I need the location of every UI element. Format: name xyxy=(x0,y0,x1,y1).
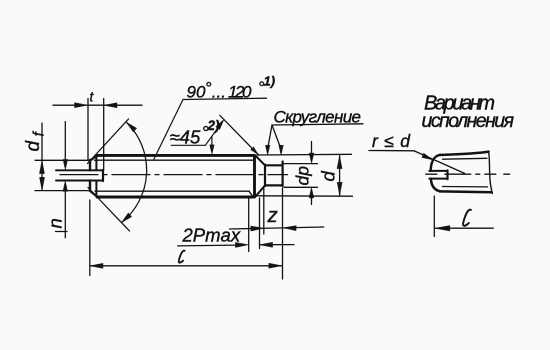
svg-text:t: t xyxy=(90,90,95,105)
construction line bottom (chamfer extended) xyxy=(88,188,130,232)
variant: crest top line xyxy=(440,152,489,155)
dp arrow down xyxy=(309,153,314,164)
n dimension line lower part xyxy=(64,191,66,238)
variant l dimension line with arrow xyxy=(435,227,493,229)
approx45 branch arrow down to thread xyxy=(211,137,213,147)
screw body crest bottom line xyxy=(97,196,254,199)
variant: slot lines xyxy=(429,171,447,179)
construction line top (chamfer extended) xyxy=(88,119,129,164)
n arrow up xyxy=(63,181,68,192)
d_f arrow down xyxy=(40,177,45,190)
r<=d underline xyxy=(369,150,415,152)
slot bottom face xyxy=(102,170,104,181)
right end face of thread xyxy=(253,155,256,197)
variant: break line xyxy=(489,152,493,194)
svg-text:df: df xyxy=(23,130,48,151)
2Pmax extension right xyxy=(259,198,261,249)
Skruglenie leader right xyxy=(272,125,281,149)
leader line for 90..120 xyxy=(154,100,184,161)
dog point top chamfer xyxy=(256,156,265,165)
thread runout diagonal xyxy=(249,191,253,197)
dog point outline xyxy=(265,162,283,187)
z arrow pointing right xyxy=(251,226,264,231)
d_f extension top xyxy=(35,159,90,161)
svg-text:n: n xyxy=(45,218,66,228)
t extension line left xyxy=(87,99,89,161)
svg-text:≈45: ≈45 xyxy=(170,126,201,147)
d_f dimension line xyxy=(41,123,43,190)
l extension left xyxy=(89,200,91,276)
svg-text:90: 90 xyxy=(187,83,206,102)
arc arrowhead top xyxy=(127,122,137,132)
2Pmax dimension line left part with arrow xyxy=(178,244,237,247)
svg-text:z: z xyxy=(267,204,278,227)
z extension left xyxy=(263,187,265,235)
dog end extension line down xyxy=(282,188,284,279)
arc arrowhead bottom xyxy=(122,213,132,223)
2Pmax extension left xyxy=(248,198,250,252)
small arrowhead at 45line lower end xyxy=(251,147,259,155)
d extension line top xyxy=(257,153,352,156)
approx45 underline xyxy=(171,144,205,146)
left bottom chamfer xyxy=(90,191,98,198)
d extension line bottom xyxy=(256,195,353,197)
underline for 90..120 xyxy=(183,98,267,99)
svg-text:120: 120 xyxy=(228,82,252,101)
angle arc 90..120 xyxy=(122,122,147,222)
d_f extension bottom xyxy=(35,190,90,192)
left top chamfer xyxy=(90,155,98,160)
t extension line right xyxy=(103,99,105,171)
d dimension line xyxy=(339,156,341,196)
d arrow down xyxy=(337,182,342,195)
dp extension line bottom xyxy=(284,186,318,188)
label l variant (script ell) xyxy=(463,210,471,226)
Skruglenie leader left xyxy=(268,125,272,149)
variant: slot bottom face xyxy=(446,170,448,179)
d_f arrow up xyxy=(40,161,45,174)
n tick xyxy=(56,231,68,233)
svg-text:Скругление: Скругление xyxy=(274,107,362,126)
45deg construction line xyxy=(220,115,259,155)
svg-text:...: ... xyxy=(212,82,226,101)
variant: centerline xyxy=(426,173,510,175)
variant: root bottom line xyxy=(443,186,488,188)
svg-text:r≤d: r≤d xyxy=(372,131,411,151)
variant: radius leader line xyxy=(415,151,465,173)
svg-text:d: d xyxy=(318,171,339,182)
l arrow left xyxy=(90,263,103,268)
l arrow right xyxy=(269,263,282,268)
dog point bottom chamfer xyxy=(256,185,265,196)
label l main (script ell) xyxy=(179,251,185,263)
variant: crest bottom line xyxy=(440,190,492,193)
screw body crest top line xyxy=(97,154,255,157)
t arrow right (points left) xyxy=(104,103,117,108)
t arrow left (points right) xyxy=(75,103,88,108)
svg-text:dp: dp xyxy=(293,166,313,186)
svg-text:°: ° xyxy=(205,79,212,98)
svg-text:1): 1) xyxy=(264,74,276,89)
svg-text:2): 2) xyxy=(207,118,221,133)
z arrow pointing left xyxy=(283,226,296,231)
variant: rounded cap bottom xyxy=(431,179,440,192)
slot bottom line xyxy=(56,180,103,182)
left face of screw xyxy=(89,160,91,191)
dp arrow up xyxy=(309,187,314,198)
d arrow up xyxy=(337,156,342,169)
approx45 bent leader with arrow to 45 line xyxy=(205,122,222,145)
dp extension line top xyxy=(284,163,318,165)
svg-text:2Pmax: 2Pmax xyxy=(182,224,241,245)
variant: rounded cap top xyxy=(431,155,440,171)
z dimension line xyxy=(230,227,324,229)
n arrow down xyxy=(63,159,68,170)
chamfer edge vertical xyxy=(95,157,97,197)
slot top line xyxy=(56,169,103,171)
t dimension line xyxy=(53,104,142,106)
variant l extension xyxy=(433,196,435,237)
l dimension line xyxy=(90,265,282,267)
Skruglenie underline xyxy=(272,124,363,125)
thread root bottom line xyxy=(95,190,250,192)
variant: radius arrowhead xyxy=(422,153,433,160)
thread root top line xyxy=(95,159,254,161)
n dimension line upper part xyxy=(64,122,66,161)
dp dimension line lower xyxy=(311,197,313,205)
svg-text:исполнения: исполнения xyxy=(422,110,515,132)
centerline main view xyxy=(60,174,288,176)
variant: root top line xyxy=(443,157,488,160)
dp dimension line upper xyxy=(311,142,313,155)
2Pmax dimension line right part with arrow xyxy=(260,244,294,246)
